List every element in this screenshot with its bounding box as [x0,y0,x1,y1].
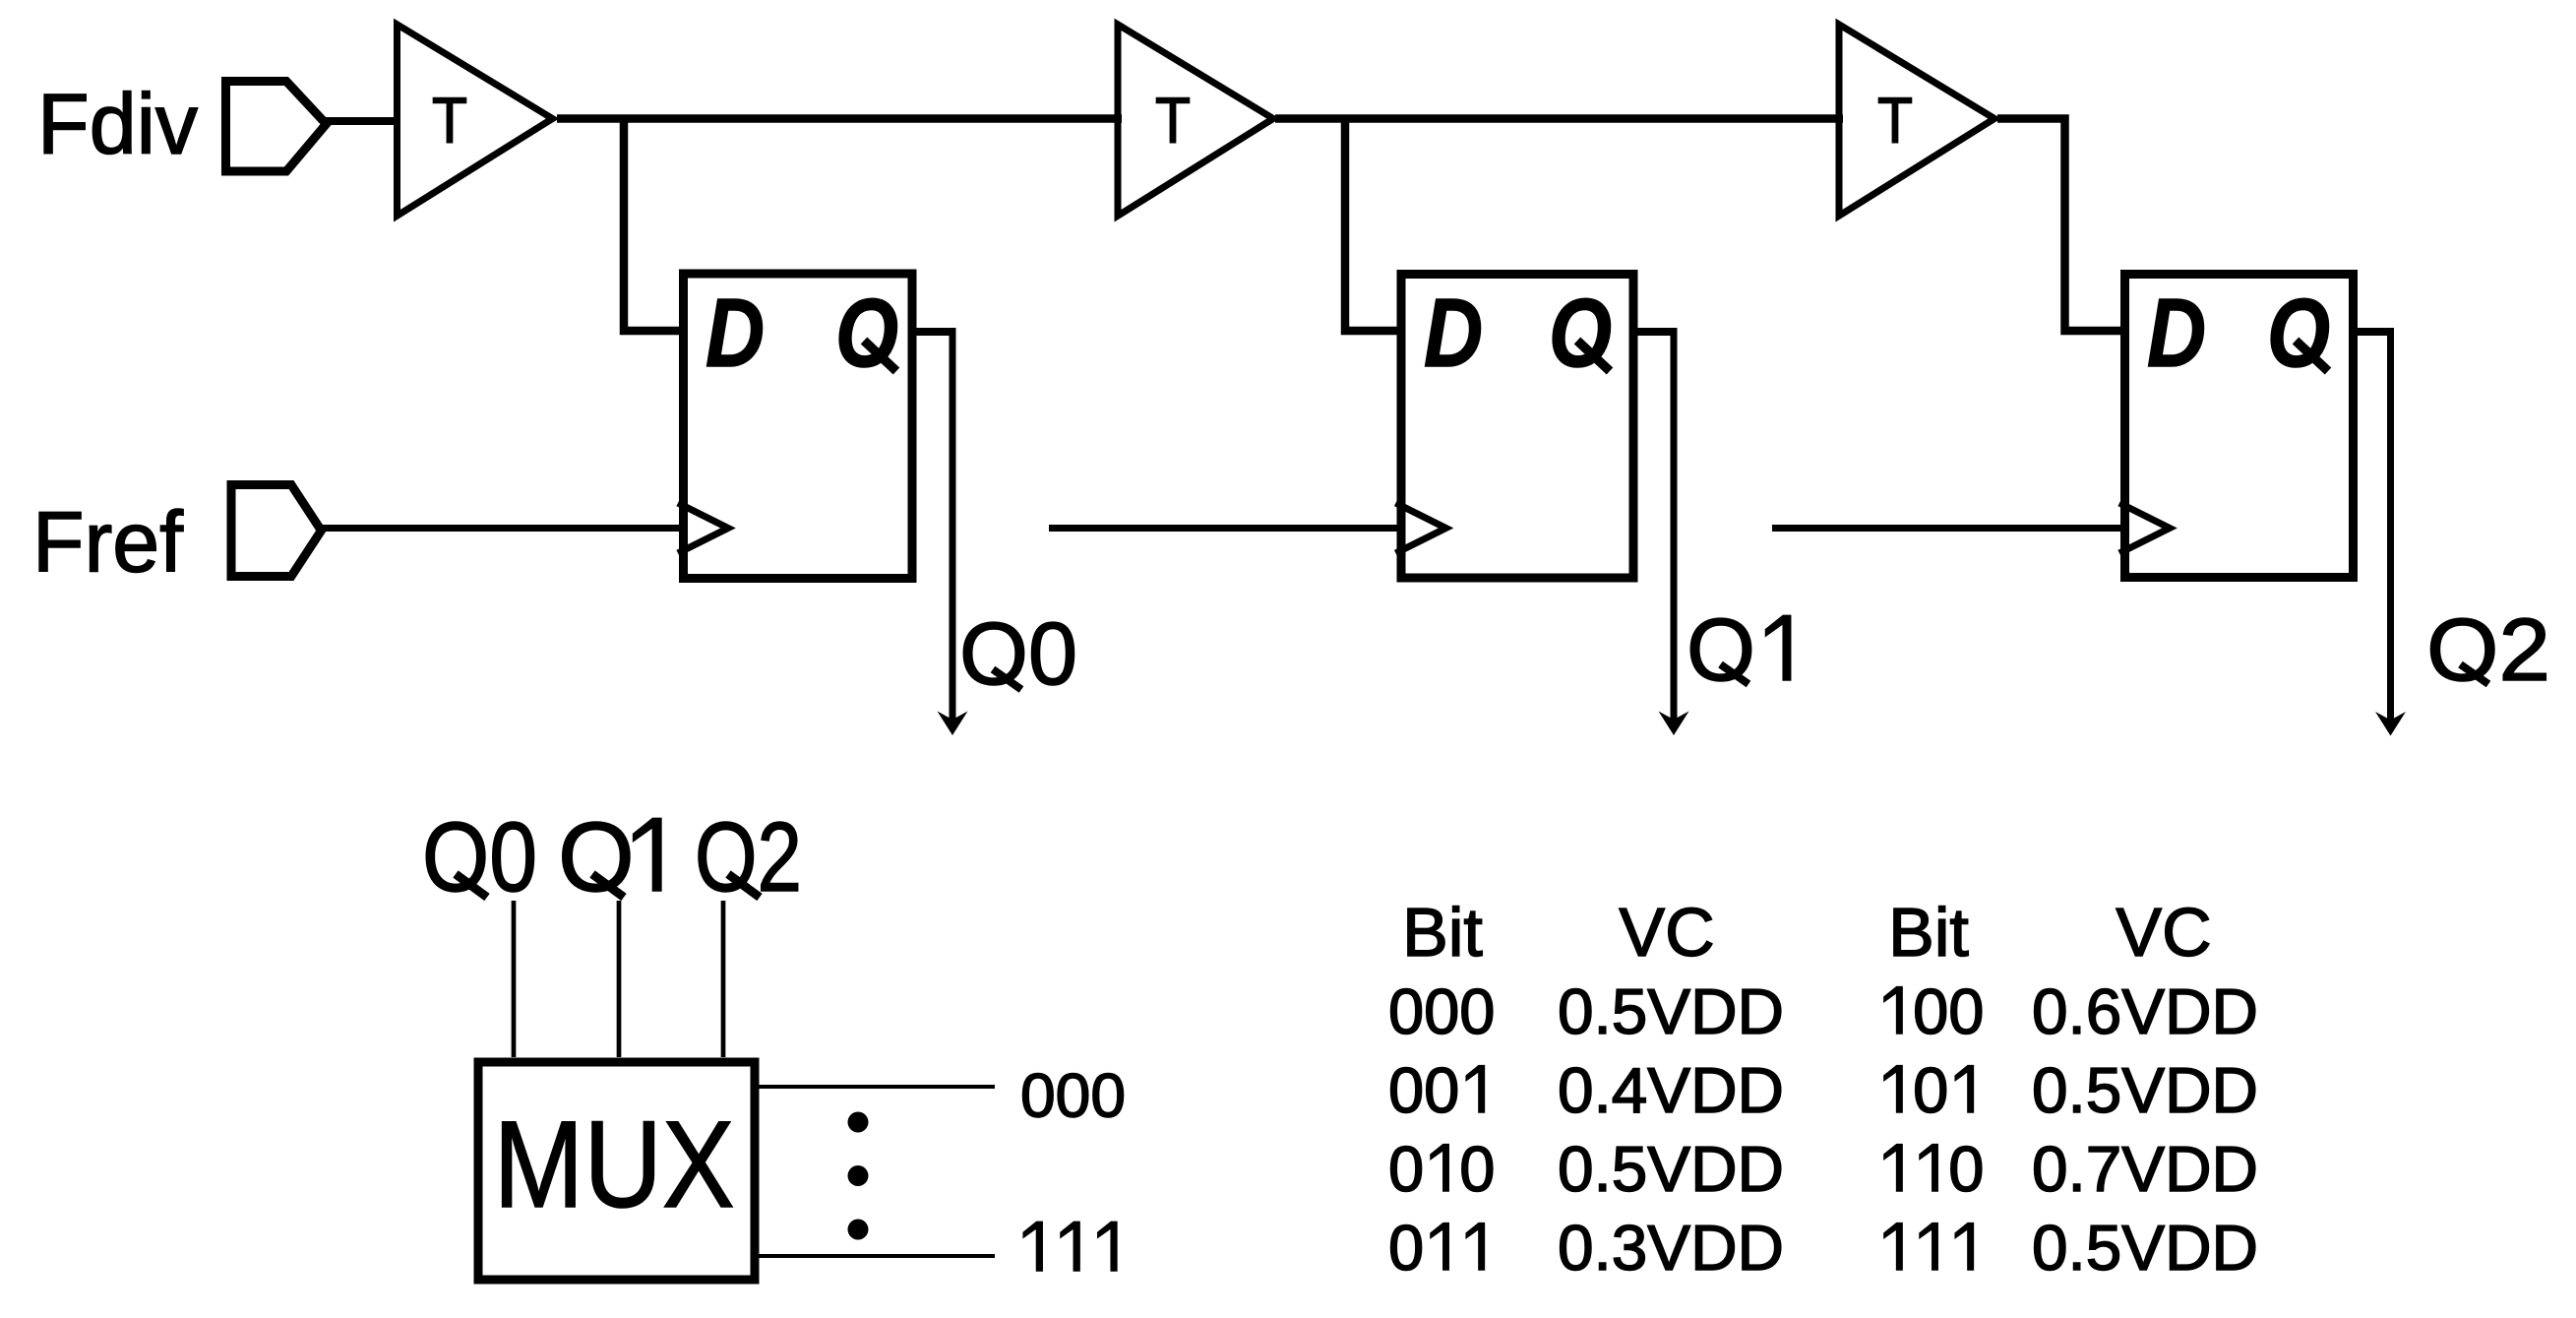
svg-text:000: 000 [1020,1062,1126,1131]
svg-text:0.4VDD: 0.4VDD [1558,1054,1784,1126]
svg-text:0.5VDD: 0.5VDD [2032,1212,2258,1284]
svg-text:0: 0 [1459,1133,1495,1205]
svg-text:0.5VDD: 0.5VDD [2032,1054,2258,1126]
svg-text:0: 0 [1388,1054,1424,1126]
svg-text:D: D [1424,279,1483,387]
svg-text:O: O [835,279,898,387]
svg-text:O: O [2267,279,2330,387]
svg-text:Fdiv: Fdiv [37,77,198,172]
svg-text:O: O [1549,279,1612,387]
svg-text:0.6VDD: 0.6VDD [2032,975,2258,1047]
svg-text:0: 0 [1913,975,1948,1047]
svg-text:0: 0 [1388,975,1424,1047]
svg-text:D: D [2147,279,2206,387]
svg-text:MUX: MUX [494,1097,735,1233]
svg-text:0.5VDD: 0.5VDD [1558,1133,1784,1205]
svg-text:0: 0 [1388,1133,1424,1205]
svg-text:0: 0 [1424,975,1459,1047]
svg-text:0: 0 [1913,1054,1948,1126]
svg-text:0: 0 [1948,975,1984,1047]
svg-text:0.7VDD: 0.7VDD [2032,1133,2258,1205]
svg-text:Fref: Fref [32,495,184,591]
svg-text:T: T [1155,84,1191,157]
svg-text:0: 0 [1424,1054,1459,1126]
svg-text:0.3VDD: 0.3VDD [1558,1212,1784,1284]
svg-text:O2: O2 [695,802,802,912]
svg-text:0: 0 [1948,1133,1984,1205]
svg-text:0.5VDD: 0.5VDD [1558,975,1784,1047]
svg-text:Bit: Bit [1402,894,1483,971]
svg-text:T: T [1877,84,1913,157]
svg-text:O2: O2 [2426,601,2550,700]
svg-text:Bit: Bit [1888,894,1969,971]
svg-text:VC: VC [1619,894,1714,971]
svg-text:VC: VC [2116,894,2211,971]
svg-text:T: T [432,84,467,157]
svg-text:0: 0 [1388,1212,1424,1284]
svg-text:0: 0 [1459,975,1495,1047]
svg-text:D: D [705,279,765,387]
